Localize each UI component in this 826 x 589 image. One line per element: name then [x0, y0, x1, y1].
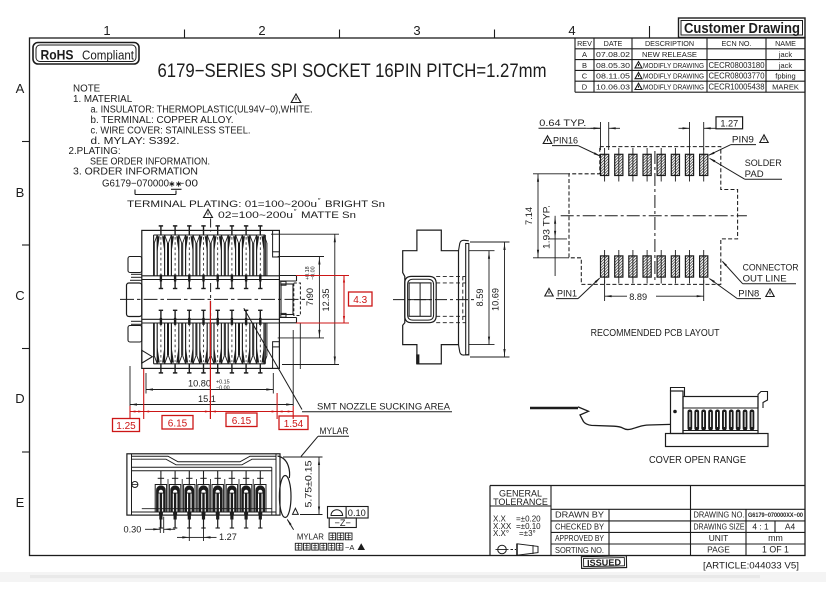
svg-text:jack: jack	[778, 61, 793, 70]
svg-text:8.59: 8.59	[475, 289, 485, 307]
svg-text:D: D	[15, 391, 24, 406]
red dimension chain line	[130, 301, 293, 419]
front view dimension 5.75	[283, 457, 323, 515]
svg-text:A: A	[16, 81, 25, 96]
top view lower terminal comb	[142, 319, 280, 364]
svg-text:jack: jack	[778, 50, 793, 59]
svg-text:07.08.02: 07.08.02	[596, 50, 630, 59]
pcb solder pad label	[709, 158, 782, 179]
top view datum flag triangle	[142, 350, 153, 363]
svg-text:=±3°: =±3°	[519, 529, 536, 538]
side view hidden lines	[436, 276, 466, 322]
svg-text:fpbing: fpbing	[775, 72, 795, 81]
svg-text:1.93 TYP.: 1.93 TYP.	[542, 205, 552, 249]
svg-text:CONNECTOR: CONNECTOR	[743, 263, 799, 273]
red dimension 4.3	[296, 276, 372, 324]
scan artifact band	[0, 572, 826, 582]
top view connector body outline	[142, 230, 280, 368]
svg-text:Customer Drawing: Customer Drawing	[684, 21, 800, 37]
cover open right latch	[758, 392, 768, 409]
svg-text:BRIGHT Sn: BRIGHT Sn	[325, 199, 385, 210]
svg-text:0.10: 0.10	[348, 508, 366, 518]
svg-text:MAREK: MAREK	[772, 83, 799, 92]
svg-text:PIN9: PIN9	[732, 135, 754, 145]
svg-text:NAME: NAME	[775, 39, 796, 48]
pcb dimension 1.27 boxed	[679, 117, 743, 150]
dimension 10.80 (bottom of top view)	[146, 373, 273, 394]
svg-text:2: 2	[258, 23, 265, 38]
revision table grid	[575, 38, 805, 92]
svg-text:1 OF 1: 1 OF 1	[762, 545, 789, 555]
pcb dimension 8.89	[605, 280, 704, 302]
pcb PIN9 label	[708, 135, 768, 156]
svg-text:1: 1	[103, 23, 110, 38]
pcb connector outline (dashed)	[569, 147, 738, 285]
svg-text:0.64 TYP.: 0.64 TYP.	[539, 118, 586, 128]
svg-text:08.11.05: 08.11.05	[596, 72, 630, 81]
svg-text:MYLAR: MYLAR	[320, 426, 349, 436]
top zone numbers 1-4	[103, 23, 575, 38]
title block right entries	[694, 510, 804, 555]
svg-text:PIN8: PIN8	[738, 289, 759, 299]
cover open hinge plate	[671, 388, 685, 434]
pcb connector outline label	[722, 260, 799, 283]
svg-text:DRAWN BY: DRAWN BY	[555, 510, 604, 520]
svg-text:PAD: PAD	[745, 169, 764, 179]
svg-text:5.75±0.15: 5.75±0.15	[304, 461, 314, 508]
svg-text:G6179−070000: G6179−070000	[102, 179, 170, 190]
svg-text:6179−SERIES SPI SOCKET 16PI: 6179−SERIES SPI SOCKET 16PIN PITCH=1.27m…	[158, 60, 547, 82]
notes text block	[69, 84, 313, 190]
svg-text:8.89: 8.89	[629, 292, 647, 302]
svg-text:PIN16: PIN16	[553, 136, 578, 146]
side view dimensions 8.59 and 10.69	[469, 242, 510, 357]
top view right contact extension	[273, 230, 301, 368]
svg-text:4 : 1: 4 : 1	[752, 521, 769, 531]
svg-text:SORTING NO.: SORTING NO.	[555, 545, 604, 555]
svg-text:3: 3	[413, 23, 420, 38]
svg-text:c. WIRE COVER: STAINLESS ST: c. WIRE COVER: STAINLESS STEEL.	[91, 126, 251, 137]
pcb dimension 1.93 TYP	[542, 205, 568, 276]
flatness callout and datum Z	[328, 507, 369, 529]
svg-text:RoHS: RoHS	[41, 47, 74, 63]
svg-text:NOTE: NOTE	[73, 84, 101, 95]
svg-text:02=100~200u: 02=100~200u	[218, 210, 293, 221]
svg-text:TERMINAL PLATING: 01=100~200: TERMINAL PLATING: 01=100~200u	[127, 199, 317, 210]
svg-text:3. ORDER INFORMATION: 3. ORDER INFORMATION	[73, 167, 198, 178]
svg-text:A4: A4	[785, 521, 796, 531]
title block grid	[490, 486, 805, 556]
pcb top solder pads row	[601, 148, 708, 182]
svg-text:4: 4	[568, 23, 575, 38]
top view centerlines	[120, 219, 313, 317]
svg-text:G6179−070000XX−00: G6179−070000XX−00	[748, 512, 803, 519]
revision table row D	[582, 83, 799, 92]
pcb PIN8 label	[709, 278, 775, 299]
svg-text:15.1: 15.1	[198, 394, 216, 404]
svg-text:NEW RELEASE: NEW RELEASE	[642, 50, 697, 59]
svg-text:7.90: 7.90	[305, 288, 315, 306]
terminal plating option 01	[127, 198, 385, 210]
svg-text:1.27: 1.27	[720, 118, 738, 128]
svg-text:1.25: 1.25	[116, 421, 136, 432]
red dimension box 6.15 left	[162, 416, 193, 430]
revision table row A	[582, 50, 792, 59]
revision table header row	[577, 39, 796, 48]
top view lower terminal pins	[159, 310, 263, 373]
svg-text:DESCRIPTION: DESCRIPTION	[645, 39, 694, 48]
front view dimension 0.30	[124, 517, 176, 535]
pcb centerlines	[561, 151, 747, 282]
issued stamp	[581, 556, 626, 569]
front view dimension 1.27	[177, 517, 237, 542]
svg-text:1.27: 1.27	[219, 532, 237, 542]
terminal plating option 02	[204, 209, 357, 221]
cover open base plate	[666, 434, 769, 447]
svg-text:b. TERMINAL: COPPER ALLOY.: b. TERMINAL: COPPER ALLOY.	[91, 115, 234, 126]
svg-text:1. MATERIAL: 1. MATERIAL	[73, 94, 133, 105]
svg-text:B: B	[16, 185, 25, 200]
svg-text:DATE: DATE	[604, 39, 623, 48]
svg-text:MATTE Sn: MATTE Sn	[301, 210, 356, 221]
top view middle left tab	[127, 280, 142, 316]
svg-text:TOLERANCE: TOLERANCE	[493, 497, 548, 507]
svg-text:C: C	[15, 288, 24, 303]
svg-text:SMT NOZZLE SUCKING AREA: SMT NOZZLE SUCKING AREA	[317, 401, 451, 411]
svg-text:6.15: 6.15	[168, 419, 188, 430]
top view upper left mounting tab	[128, 257, 142, 278]
svg-text:−: −	[179, 179, 185, 190]
pcb dimension 7.14	[524, 174, 569, 258]
side view centerline	[393, 299, 475, 301]
article number	[703, 561, 799, 571]
mylar label upper	[301, 426, 349, 457]
svg-text:mm: mm	[768, 533, 783, 543]
svg-text:MYLAR: MYLAR	[297, 533, 324, 542]
svg-text:−A: −A	[345, 543, 354, 552]
mylar fold note (chinese)	[287, 519, 365, 552]
SMT nozzle sucking area label	[244, 308, 452, 412]
svg-text:E: E	[16, 495, 25, 510]
part number suffix bracket	[135, 189, 182, 194]
red dimension box 1.25	[113, 419, 140, 433]
svg-text:00: 00	[185, 179, 199, 190]
revision table row C	[582, 72, 796, 81]
svg-text:X.X°: X.X°	[493, 529, 509, 538]
svg-text:CECR08003180: CECR08003180	[709, 61, 766, 70]
svg-text:PAGE: PAGE	[707, 545, 730, 555]
svg-text:[ARTICLE:044033 V5]: [ARTICLE:044033 V5]	[703, 561, 799, 571]
front view housing with cover	[127, 454, 280, 515]
svg-text:1.54: 1.54	[284, 419, 304, 430]
dimension 7.90 and 12.35 (right of top view)	[271, 234, 339, 364]
svg-text:+0.18−0.00: +0.18−0.00	[305, 266, 317, 280]
svg-text:7.14: 7.14	[524, 207, 534, 225]
front view terminal pins	[155, 471, 266, 528]
title block left labels	[555, 510, 604, 555]
svg-text:CHECKED BY: CHECKED BY	[555, 522, 604, 532]
red dimension box 1.54	[279, 416, 308, 430]
red dimension box 6.15 right	[226, 413, 257, 427]
general tolerance text	[493, 489, 548, 539]
svg-text:10.69: 10.69	[491, 288, 501, 311]
svg-text:6.15: 6.15	[232, 416, 252, 427]
left zone letters A-E with ticks	[15, 81, 29, 510]
projection symbol	[496, 544, 539, 555]
pcb PIN1 label	[545, 277, 601, 298]
revision triangle above WHITE	[291, 94, 301, 103]
svg-text:12.35: 12.35	[321, 289, 331, 312]
svg-text:2.PLATING:: 2.PLATING:	[69, 146, 121, 157]
svg-text:OUT LINE: OUT LINE	[743, 274, 787, 284]
svg-text:DRAWING SIZE: DRAWING SIZE	[694, 521, 745, 531]
side view bottom detail fill	[416, 354, 419, 364]
svg-text:RECOMMENDED PCB LAYOUT: RECOMMENDED PCB LAYOUT	[591, 328, 720, 339]
svg-text:APPROVED BY: APPROVED BY	[555, 533, 604, 543]
svg-text:PIN1: PIN1	[557, 289, 577, 299]
Customer Drawing header box	[679, 18, 806, 38]
svg-text:B: B	[582, 61, 587, 70]
svg-text:10.80: 10.80	[188, 379, 211, 389]
svg-text:ISSUED: ISSUED	[587, 557, 621, 568]
cover open spring arm	[530, 407, 671, 430]
svg-text:Compliant: Compliant	[82, 48, 134, 63]
svg-text:CECR10005438: CECR10005438	[709, 83, 765, 92]
pcb bottom solder pads row	[601, 250, 708, 284]
front view mylar film loop	[278, 456, 299, 518]
svg-text:10.06.03: 10.06.03	[596, 83, 630, 92]
svg-text:COVER OPEN RANGE: COVER OPEN RANGE	[649, 455, 746, 466]
svg-text:a. INSULATOR: THERMOPLASTIC(U: a. INSULATOR: THERMOPLASTIC(UL94V−0),WHI…	[91, 105, 313, 116]
svg-text:MODIFLY DRAWING: MODIFLY DRAWING	[643, 61, 704, 70]
svg-text:4.3: 4.3	[353, 295, 367, 306]
svg-text:−Z−: −Z−	[335, 518, 351, 528]
side view rear cover plate with curls	[459, 240, 469, 355]
pcb PIN16 label	[543, 136, 600, 157]
pcb dimension 0.64 TYP	[539, 118, 621, 150]
top view upper terminal comb	[142, 235, 280, 280]
svg-text:−0.00: −0.00	[216, 385, 230, 391]
side view mating cap	[405, 276, 436, 322]
dimension 15.1	[130, 323, 300, 406]
svg-text:UNIT: UNIT	[709, 533, 729, 543]
svg-text:SOLDER: SOLDER	[745, 158, 782, 168]
cover open body with coiled contacts	[683, 397, 758, 434]
svg-text:MODIFLY DRAWING: MODIFLY DRAWING	[643, 72, 704, 81]
drawing title text	[158, 60, 547, 82]
svg-text:C: C	[582, 72, 588, 81]
svg-text:0.30: 0.30	[124, 525, 142, 535]
revision table row B	[582, 61, 792, 70]
svg-text:D: D	[582, 83, 588, 92]
svg-text:MODIFLY DRAWING: MODIFLY DRAWING	[643, 83, 704, 92]
svg-text:ECN NO.: ECN NO.	[722, 39, 752, 48]
svg-text:REV: REV	[577, 39, 592, 48]
side view body outline	[403, 230, 459, 364]
svg-text:CECR08003770: CECR08003770	[709, 72, 766, 81]
svg-text:08.05.30: 08.05.30	[596, 61, 630, 70]
top view lower left mounting tab	[128, 321, 142, 342]
cover open range caption	[649, 455, 746, 466]
recommended pcb layout caption	[591, 328, 720, 339]
top view upper terminal pins	[159, 226, 263, 289]
RoHS Compliant stamp	[33, 43, 139, 65]
svg-text:A: A	[582, 50, 587, 59]
svg-text:DRAWING NO.: DRAWING NO.	[694, 510, 745, 520]
